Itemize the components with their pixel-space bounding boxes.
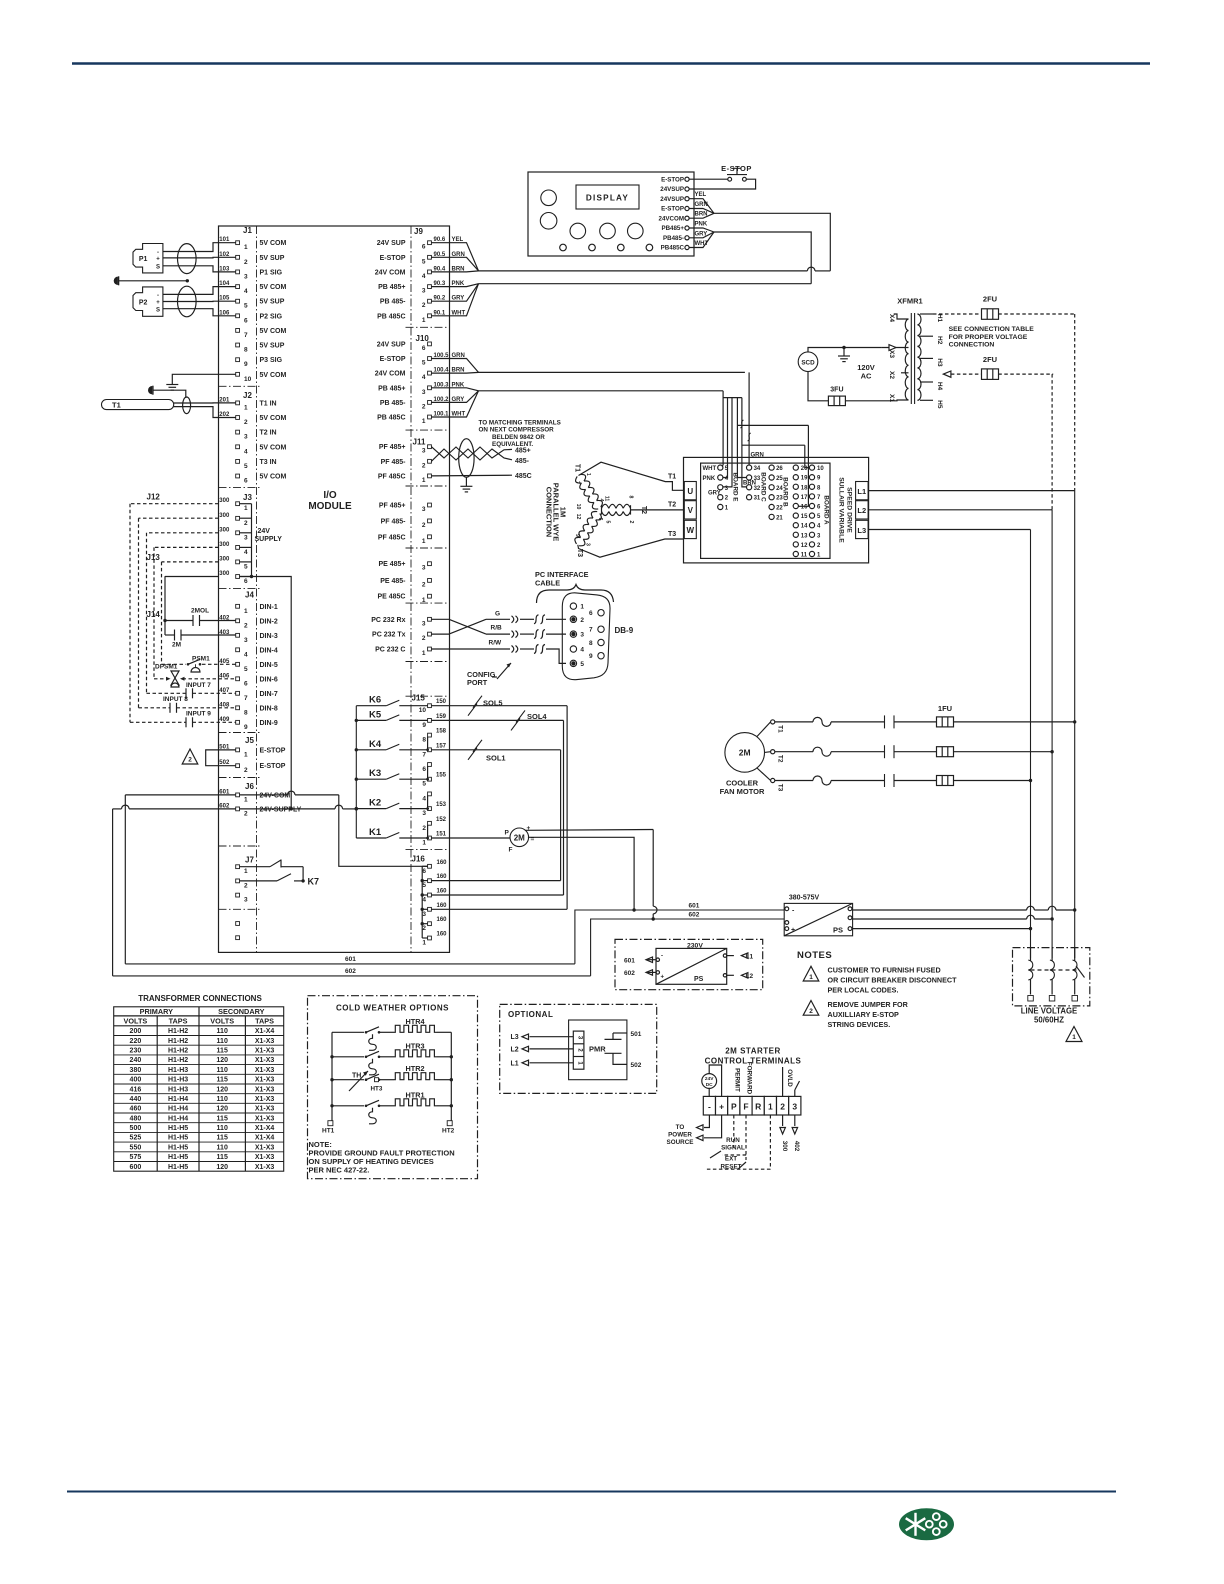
svg-text:H1-H5: H1-H5 bbox=[168, 1125, 188, 1132]
svg-text:2: 2 bbox=[244, 259, 248, 266]
svg-text:DIN-2: DIN-2 bbox=[260, 618, 278, 625]
svg-text:8: 8 bbox=[244, 347, 248, 354]
svg-text:6: 6 bbox=[422, 766, 426, 773]
svg-text:2: 2 bbox=[422, 635, 426, 642]
svg-text:J4: J4 bbox=[245, 591, 254, 600]
svg-text:4: 4 bbox=[422, 273, 426, 280]
svg-text:7: 7 bbox=[422, 751, 426, 758]
svg-text:X1-X3: X1-X3 bbox=[255, 1067, 275, 1074]
svg-text:5V SUP: 5V SUP bbox=[260, 299, 285, 306]
svg-text:J11: J11 bbox=[413, 438, 426, 447]
svg-text:E-STOP: E-STOP bbox=[260, 747, 286, 754]
svg-text:24VSUP: 24VSUP bbox=[660, 186, 684, 193]
svg-text:PB 485+: PB 485+ bbox=[378, 385, 405, 392]
svg-text:550: 550 bbox=[130, 1144, 142, 1151]
svg-text:U: U bbox=[687, 487, 693, 496]
svg-text:HT2: HT2 bbox=[442, 1128, 455, 1135]
svg-text:160: 160 bbox=[437, 932, 448, 938]
svg-text:159: 159 bbox=[436, 714, 447, 720]
svg-text:2M: 2M bbox=[514, 833, 525, 842]
svg-text:3: 3 bbox=[585, 543, 591, 546]
svg-text:1: 1 bbox=[768, 1101, 773, 1111]
svg-text:SOL5: SOL5 bbox=[483, 699, 503, 708]
svg-text:24V-SUPPLY: 24V-SUPPLY bbox=[260, 806, 302, 813]
svg-text:LINE VOLTAGE: LINE VOLTAGE bbox=[1021, 1007, 1077, 1016]
svg-text:6: 6 bbox=[597, 518, 603, 521]
svg-text:5V COM: 5V COM bbox=[260, 328, 287, 335]
svg-text:AUXILLIARY E-STOP: AUXILLIARY E-STOP bbox=[828, 1010, 900, 1019]
svg-text:W: W bbox=[687, 526, 695, 535]
svg-text:X1-X3: X1-X3 bbox=[255, 1115, 275, 1122]
svg-text:7: 7 bbox=[574, 481, 580, 484]
svg-text:11: 11 bbox=[801, 553, 808, 559]
svg-text:5: 5 bbox=[422, 258, 426, 265]
svg-text:460: 460 bbox=[130, 1106, 142, 1113]
svg-text:S: S bbox=[156, 265, 160, 271]
svg-text:2: 2 bbox=[780, 1101, 785, 1111]
svg-text:6: 6 bbox=[244, 578, 248, 585]
svg-text:PF 485-: PF 485- bbox=[381, 518, 407, 525]
svg-text:115: 115 bbox=[217, 1048, 228, 1055]
svg-text:HTR2: HTR2 bbox=[405, 1064, 424, 1073]
svg-text:PER NEC 427-22.: PER NEC 427-22. bbox=[309, 1166, 370, 1175]
svg-text:14: 14 bbox=[801, 524, 808, 530]
svg-text:PE 485C: PE 485C bbox=[377, 594, 405, 601]
svg-text:300: 300 bbox=[219, 542, 230, 548]
svg-text:T2: T2 bbox=[668, 502, 676, 509]
svg-text:L3: L3 bbox=[857, 526, 866, 535]
svg-text:PF 485+: PF 485+ bbox=[379, 444, 406, 451]
svg-text:DIN-1: DIN-1 bbox=[260, 604, 278, 611]
svg-text:1: 1 bbox=[244, 608, 248, 615]
svg-text:GRY: GRY bbox=[695, 231, 708, 237]
svg-text:24VSUP: 24VSUP bbox=[660, 196, 684, 203]
svg-text:2: 2 bbox=[244, 767, 248, 774]
svg-text:6: 6 bbox=[422, 244, 426, 251]
svg-text:K3: K3 bbox=[369, 768, 381, 779]
svg-text:PB485-: PB485- bbox=[663, 235, 684, 242]
svg-text:PORT: PORT bbox=[467, 678, 488, 687]
svg-text:4: 4 bbox=[580, 647, 584, 654]
svg-text:SPEED DRIVE: SPEED DRIVE bbox=[846, 487, 853, 533]
svg-text:X1-X3: X1-X3 bbox=[255, 1164, 275, 1171]
svg-text:3: 3 bbox=[244, 637, 248, 644]
svg-text:1: 1 bbox=[422, 317, 426, 324]
svg-text:TO: TO bbox=[676, 1124, 685, 1131]
svg-text:PB 485C: PB 485C bbox=[377, 313, 405, 320]
svg-text:152: 152 bbox=[436, 817, 447, 823]
svg-text:T1: T1 bbox=[668, 473, 676, 480]
svg-text:SIGNAL: SIGNAL bbox=[721, 1145, 745, 1152]
svg-text:5: 5 bbox=[244, 463, 248, 470]
svg-text:DIN-4: DIN-4 bbox=[260, 647, 278, 654]
svg-text:F: F bbox=[509, 847, 513, 854]
svg-text:575: 575 bbox=[130, 1154, 142, 1161]
svg-text:2: 2 bbox=[244, 419, 248, 426]
svg-text:H1-H5: H1-H5 bbox=[168, 1154, 188, 1161]
svg-text:151: 151 bbox=[436, 832, 447, 838]
svg-text:PNK: PNK bbox=[703, 476, 716, 482]
svg-text:OVLD: OVLD bbox=[786, 1069, 793, 1087]
svg-text:601: 601 bbox=[624, 957, 635, 964]
svg-text:CUSTOMER TO FURNISH FUSED: CUSTOMER TO FURNISH FUSED bbox=[828, 965, 941, 974]
svg-text:5: 5 bbox=[580, 661, 584, 668]
svg-text:SEE CONNECTION TABLE: SEE CONNECTION TABLE bbox=[949, 326, 1035, 333]
svg-text:PB 485-: PB 485- bbox=[380, 400, 406, 407]
svg-text:OR CIRCUIT BREAKER DISCONNECT: OR CIRCUIT BREAKER DISCONNECT bbox=[828, 975, 958, 984]
svg-text:160: 160 bbox=[437, 917, 448, 923]
svg-text:PSM1: PSM1 bbox=[192, 656, 210, 663]
svg-text:P1 SIG: P1 SIG bbox=[260, 269, 283, 276]
svg-text:5V COM: 5V COM bbox=[260, 372, 287, 379]
svg-text:+: + bbox=[527, 825, 531, 832]
svg-text:1: 1 bbox=[422, 597, 426, 604]
svg-text:9: 9 bbox=[422, 722, 426, 729]
svg-text:L2: L2 bbox=[746, 973, 754, 980]
svg-text:L1: L1 bbox=[857, 487, 866, 496]
svg-text:3: 3 bbox=[422, 288, 426, 295]
svg-text:115: 115 bbox=[217, 1135, 228, 1142]
svg-text:AC: AC bbox=[861, 372, 872, 381]
svg-text:SUPPLY: SUPPLY bbox=[255, 536, 283, 543]
svg-text:J7: J7 bbox=[245, 856, 254, 865]
svg-text:1: 1 bbox=[244, 796, 248, 803]
svg-text:600: 600 bbox=[130, 1164, 142, 1171]
svg-text:T3: T3 bbox=[777, 784, 784, 792]
svg-text:1: 1 bbox=[585, 473, 591, 476]
svg-text:P: P bbox=[731, 1101, 737, 1111]
svg-text:1: 1 bbox=[422, 538, 426, 545]
svg-text:400: 400 bbox=[130, 1077, 142, 1084]
svg-text:24V COM: 24V COM bbox=[375, 269, 406, 276]
svg-text:5: 5 bbox=[605, 521, 611, 524]
svg-text:5: 5 bbox=[422, 360, 426, 367]
svg-text:1: 1 bbox=[422, 650, 426, 657]
svg-text:T1: T1 bbox=[112, 401, 121, 410]
svg-text:2: 2 bbox=[244, 520, 248, 527]
svg-text:3: 3 bbox=[244, 534, 248, 541]
svg-text:T2 IN: T2 IN bbox=[260, 430, 277, 437]
svg-text:19: 19 bbox=[801, 476, 808, 482]
svg-text:24V: 24V bbox=[705, 1076, 714, 1082]
svg-text:E-STOP: E-STOP bbox=[260, 763, 286, 770]
svg-text:HT1: HT1 bbox=[322, 1128, 335, 1135]
svg-text:L1: L1 bbox=[746, 953, 754, 960]
svg-text:158: 158 bbox=[436, 729, 447, 735]
svg-text:12: 12 bbox=[575, 514, 581, 520]
svg-text:160: 160 bbox=[437, 874, 448, 880]
svg-text:5: 5 bbox=[244, 303, 248, 310]
svg-text:E-STOP: E-STOP bbox=[661, 206, 684, 213]
svg-text:2: 2 bbox=[422, 581, 426, 588]
svg-text:BRN: BRN bbox=[743, 481, 756, 487]
svg-text:G: G bbox=[495, 610, 500, 617]
svg-text:PERMIT: PERMIT bbox=[733, 1068, 740, 1092]
svg-text:2M: 2M bbox=[172, 642, 181, 649]
svg-text:PC 232 Tx: PC 232 Tx bbox=[372, 632, 406, 639]
svg-text:PC 232 C: PC 232 C bbox=[375, 647, 405, 654]
svg-text:5V COM: 5V COM bbox=[260, 240, 287, 247]
svg-text:-: - bbox=[157, 250, 159, 256]
svg-text:FORWARD: FORWARD bbox=[746, 1062, 753, 1095]
svg-text:4: 4 bbox=[598, 499, 604, 502]
svg-text:2: 2 bbox=[628, 521, 634, 524]
svg-text:J1: J1 bbox=[243, 226, 252, 235]
svg-text:11: 11 bbox=[604, 496, 610, 502]
svg-text:+: + bbox=[791, 927, 795, 934]
svg-text:10: 10 bbox=[419, 707, 427, 714]
svg-text:13: 13 bbox=[801, 533, 808, 539]
svg-text:4: 4 bbox=[244, 448, 248, 455]
svg-text:1: 1 bbox=[244, 505, 248, 512]
svg-text:BOARD B: BOARD B bbox=[782, 477, 789, 507]
svg-text:TO MATCHING TERMINALS: TO MATCHING TERMINALS bbox=[479, 420, 561, 427]
svg-text:2: 2 bbox=[422, 825, 426, 832]
svg-text:2M STARTER: 2M STARTER bbox=[725, 1047, 781, 1056]
svg-text:EXT: EXT bbox=[725, 1156, 737, 1163]
svg-text:1: 1 bbox=[422, 940, 426, 947]
svg-text:3: 3 bbox=[244, 897, 248, 904]
svg-text:V: V bbox=[688, 506, 694, 515]
svg-text:X1-X3: X1-X3 bbox=[255, 1077, 275, 1084]
svg-text:R: R bbox=[755, 1101, 761, 1111]
svg-text:K7: K7 bbox=[308, 877, 320, 887]
svg-text:EQUIVALENT.: EQUIVALENT. bbox=[492, 441, 533, 448]
svg-text:26: 26 bbox=[776, 466, 783, 472]
svg-text:6: 6 bbox=[422, 345, 426, 352]
svg-text:COLD WEATHER OPTIONS: COLD WEATHER OPTIONS bbox=[336, 1004, 449, 1013]
svg-text:L3: L3 bbox=[511, 1034, 519, 1041]
svg-text:300: 300 bbox=[219, 527, 230, 533]
svg-text:8: 8 bbox=[422, 737, 426, 744]
svg-text:K6: K6 bbox=[369, 695, 381, 706]
svg-text:5V COM: 5V COM bbox=[260, 284, 287, 291]
svg-text:PF 485-: PF 485- bbox=[381, 459, 407, 466]
svg-text:160: 160 bbox=[437, 889, 448, 895]
svg-text:MODULE: MODULE bbox=[308, 501, 352, 512]
svg-text:E-STOP: E-STOP bbox=[661, 176, 684, 183]
svg-text:500: 500 bbox=[130, 1125, 142, 1132]
svg-text:300: 300 bbox=[219, 513, 230, 519]
svg-text:H1-H4: H1-H4 bbox=[168, 1096, 188, 1103]
svg-text:5V COM: 5V COM bbox=[260, 444, 287, 451]
svg-text:J3: J3 bbox=[243, 493, 252, 502]
svg-text:HTR4: HTR4 bbox=[405, 1017, 425, 1026]
svg-text:YEL: YEL bbox=[695, 192, 707, 198]
svg-text:S: S bbox=[156, 308, 160, 314]
svg-text:HTR1: HTR1 bbox=[405, 1090, 424, 1099]
svg-text:SOURCE: SOURCE bbox=[667, 1139, 694, 1146]
svg-text:10: 10 bbox=[575, 504, 581, 510]
svg-text:24V COM: 24V COM bbox=[375, 371, 406, 378]
svg-text:X3: X3 bbox=[888, 350, 895, 358]
svg-text:2: 2 bbox=[422, 925, 426, 932]
svg-text:SULLAIR VARIABLE: SULLAIR VARIABLE bbox=[838, 477, 845, 543]
svg-text:T3: T3 bbox=[576, 549, 583, 557]
svg-text:24V: 24V bbox=[258, 528, 271, 535]
svg-text:2M: 2M bbox=[739, 748, 751, 758]
svg-text:DIN-8: DIN-8 bbox=[260, 705, 278, 712]
svg-text:8: 8 bbox=[628, 496, 634, 499]
svg-text:PF 485+: PF 485+ bbox=[379, 503, 406, 510]
svg-text:DIN-7: DIN-7 bbox=[260, 691, 278, 698]
svg-text:R/W: R/W bbox=[489, 640, 503, 647]
svg-text:2: 2 bbox=[244, 622, 248, 629]
svg-text:PS: PS bbox=[833, 926, 843, 935]
svg-text:8: 8 bbox=[589, 640, 593, 647]
svg-text:485+: 485+ bbox=[515, 447, 531, 454]
svg-text:1: 1 bbox=[422, 418, 426, 425]
svg-text:VOLTS: VOLTS bbox=[210, 1017, 234, 1026]
svg-text:1: 1 bbox=[580, 604, 584, 611]
svg-text:2: 2 bbox=[422, 403, 426, 410]
svg-text:INPUT 9: INPUT 9 bbox=[186, 711, 211, 718]
svg-text:SOL1: SOL1 bbox=[486, 754, 506, 763]
svg-text:18: 18 bbox=[801, 485, 808, 491]
svg-text:PB485+: PB485+ bbox=[661, 225, 684, 232]
svg-text:+: + bbox=[156, 257, 160, 263]
svg-text:120: 120 bbox=[216, 1086, 228, 1093]
svg-text:9: 9 bbox=[244, 724, 248, 731]
svg-text:220: 220 bbox=[130, 1038, 142, 1045]
svg-text:1: 1 bbox=[244, 404, 248, 411]
svg-text:2: 2 bbox=[244, 810, 248, 817]
svg-text:T1: T1 bbox=[574, 464, 581, 472]
svg-text:2FU: 2FU bbox=[983, 295, 997, 304]
svg-text:16: 16 bbox=[801, 505, 808, 511]
svg-text:2MOL: 2MOL bbox=[191, 608, 209, 615]
svg-text:601: 601 bbox=[345, 956, 356, 963]
svg-text:H1-H2: H1-H2 bbox=[168, 1038, 188, 1045]
svg-text:X1-X3: X1-X3 bbox=[255, 1144, 275, 1151]
svg-text:24V SUP: 24V SUP bbox=[377, 240, 406, 247]
svg-text:K2: K2 bbox=[369, 798, 381, 809]
svg-text:9: 9 bbox=[574, 534, 580, 537]
svg-text:BOARD C: BOARD C bbox=[760, 472, 767, 502]
svg-text:CONNECTION: CONNECTION bbox=[949, 342, 995, 349]
svg-text:X1-X3: X1-X3 bbox=[255, 1057, 275, 1064]
svg-text:3: 3 bbox=[422, 506, 426, 513]
svg-text:-: - bbox=[708, 1101, 711, 1111]
svg-text:2: 2 bbox=[244, 882, 248, 889]
svg-text:1: 1 bbox=[1072, 1034, 1076, 1041]
svg-text:DIN-6: DIN-6 bbox=[260, 676, 278, 683]
svg-text:X1-X3: X1-X3 bbox=[255, 1096, 275, 1103]
svg-text:X1-X3: X1-X3 bbox=[255, 1038, 275, 1045]
svg-text:REMOVE JUMPER FOR: REMOVE JUMPER FOR bbox=[828, 1000, 909, 1009]
svg-text:4: 4 bbox=[422, 795, 426, 802]
svg-text:7: 7 bbox=[244, 332, 248, 339]
svg-text:RESET: RESET bbox=[721, 1164, 742, 1171]
svg-text:GRN: GRN bbox=[751, 452, 764, 458]
svg-text:FAN MOTOR: FAN MOTOR bbox=[720, 787, 765, 796]
svg-text:H1-H2: H1-H2 bbox=[168, 1057, 188, 1064]
svg-text:SOL4: SOL4 bbox=[527, 712, 547, 721]
svg-text:DC: DC bbox=[706, 1082, 713, 1088]
svg-text:602: 602 bbox=[689, 912, 700, 919]
svg-text:120: 120 bbox=[216, 1164, 228, 1171]
svg-text:K5: K5 bbox=[369, 709, 382, 720]
svg-text:3: 3 bbox=[244, 273, 248, 280]
svg-text:XFMR1: XFMR1 bbox=[897, 297, 922, 306]
svg-text:E-STOP: E-STOP bbox=[380, 356, 406, 363]
svg-text:T2: T2 bbox=[777, 755, 784, 763]
svg-text:5V SUP: 5V SUP bbox=[260, 343, 285, 350]
svg-text:TAPS: TAPS bbox=[255, 1017, 274, 1026]
svg-text:PF 485C: PF 485C bbox=[378, 473, 406, 480]
svg-text:6: 6 bbox=[244, 478, 248, 485]
svg-text:PER LOCAL CODES.: PER LOCAL CODES. bbox=[828, 985, 899, 994]
svg-text:X1-X3: X1-X3 bbox=[255, 1154, 275, 1161]
svg-text:WHT: WHT bbox=[695, 241, 709, 247]
svg-text:T1 IN: T1 IN bbox=[260, 400, 277, 407]
svg-text:110: 110 bbox=[217, 1125, 228, 1132]
svg-text:150: 150 bbox=[436, 699, 447, 705]
svg-text:K4: K4 bbox=[369, 739, 382, 750]
svg-text:I/O: I/O bbox=[323, 490, 337, 501]
svg-text:155: 155 bbox=[436, 773, 447, 779]
svg-text:J5: J5 bbox=[245, 736, 254, 745]
svg-text:3: 3 bbox=[422, 620, 426, 627]
svg-text:21: 21 bbox=[776, 515, 783, 521]
svg-text:H1-H2: H1-H2 bbox=[168, 1028, 188, 1035]
svg-text:H1-H5: H1-H5 bbox=[168, 1135, 188, 1142]
svg-text:4: 4 bbox=[422, 374, 426, 381]
svg-text:1: 1 bbox=[244, 244, 248, 251]
svg-text:L2: L2 bbox=[857, 506, 866, 515]
svg-text:PMR: PMR bbox=[589, 1045, 606, 1054]
svg-text:2FU: 2FU bbox=[983, 355, 997, 364]
svg-text:T1: T1 bbox=[777, 725, 784, 733]
svg-text:STRING DEVICES.: STRING DEVICES. bbox=[828, 1020, 891, 1029]
svg-text:F: F bbox=[743, 1101, 748, 1111]
svg-text:-: - bbox=[661, 954, 663, 960]
svg-text:34: 34 bbox=[754, 466, 761, 472]
svg-text:300: 300 bbox=[219, 498, 230, 504]
svg-text:7: 7 bbox=[589, 627, 593, 634]
svg-text:5V COM: 5V COM bbox=[260, 415, 287, 422]
svg-text:H1-H5: H1-H5 bbox=[168, 1164, 188, 1171]
svg-text:TH: TH bbox=[352, 1073, 361, 1080]
svg-text:7: 7 bbox=[244, 695, 248, 702]
svg-text:P3 SIG: P3 SIG bbox=[260, 357, 283, 364]
svg-text:24V SUP: 24V SUP bbox=[377, 341, 406, 348]
svg-text:H2: H2 bbox=[936, 336, 943, 345]
svg-text:INPUT 8: INPUT 8 bbox=[163, 696, 188, 703]
svg-text:J15: J15 bbox=[412, 694, 426, 703]
svg-text:17: 17 bbox=[801, 495, 808, 501]
svg-text:TRANSFORMER CONNECTIONS: TRANSFORMER CONNECTIONS bbox=[138, 994, 262, 1003]
svg-text:J12: J12 bbox=[147, 493, 161, 502]
svg-text:240: 240 bbox=[130, 1057, 142, 1064]
svg-text:602: 602 bbox=[345, 968, 356, 975]
svg-text:602: 602 bbox=[624, 970, 635, 977]
svg-text:H4: H4 bbox=[936, 382, 943, 391]
svg-text:WHT: WHT bbox=[703, 466, 717, 472]
svg-text:GRY: GRY bbox=[708, 491, 721, 497]
svg-text:380-575V: 380-575V bbox=[789, 895, 820, 902]
svg-text:H1-H3: H1-H3 bbox=[168, 1077, 188, 1084]
svg-text:L2: L2 bbox=[511, 1046, 519, 1053]
svg-text:6: 6 bbox=[422, 868, 426, 875]
svg-text:2: 2 bbox=[422, 302, 426, 309]
svg-text:6: 6 bbox=[589, 610, 593, 617]
svg-text:5: 5 bbox=[422, 781, 426, 788]
svg-text:PE 485+: PE 485+ bbox=[378, 561, 405, 568]
svg-text:5V SUP: 5V SUP bbox=[260, 255, 285, 262]
svg-text:INPUT 7: INPUT 7 bbox=[186, 682, 211, 689]
svg-text:525: 525 bbox=[130, 1135, 142, 1142]
